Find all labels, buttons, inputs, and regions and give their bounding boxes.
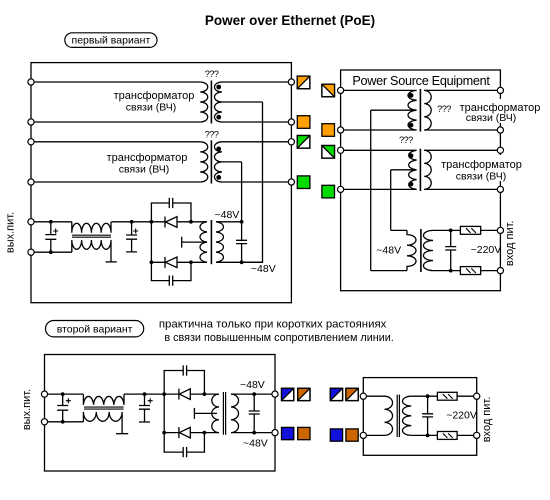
svg-text:???: ??? xyxy=(437,104,451,114)
choke L1 top winding xyxy=(72,222,111,233)
PSE T2 wire right bottom xyxy=(424,188,497,190)
PSE T2 wire left bottom xyxy=(344,188,417,190)
v2 wire bottom rail left xyxy=(48,421,84,423)
capacitor C3 output xyxy=(236,222,247,262)
bridge cap branch top xyxy=(151,203,191,222)
transformer T4 core xyxy=(420,229,422,272)
v2 transformer T6 secondary winding xyxy=(402,396,411,435)
v2 bridge cap top plates xyxy=(183,365,186,375)
v2 PSE wire left bottom xyxy=(366,434,384,436)
v2 bridge left vertical xyxy=(163,394,165,433)
svg-text:трансформатор: трансформатор xyxy=(441,159,522,171)
wire T2 secondary bottom xyxy=(222,181,288,183)
svg-text:???: ??? xyxy=(205,69,219,79)
T2 polarity dots xyxy=(216,147,221,152)
PSE outer box xyxy=(341,70,501,291)
PSE T1 right winding xyxy=(424,90,431,130)
PSE T1 wire left bottom xyxy=(344,129,417,131)
white bg for PSE T2 label xyxy=(440,155,524,181)
svg-text:~220V: ~220V xyxy=(471,244,502,256)
square blue solid B xyxy=(330,429,342,441)
terminal circles left edge of PD box xyxy=(28,79,34,85)
v2 transformer T5 primary winding xyxy=(212,394,219,432)
square pair4 left solid green xyxy=(297,176,310,189)
svg-text:~48V: ~48V xyxy=(243,438,268,450)
wire 48V bottom xyxy=(216,261,263,263)
v2 capacitor C1 electrolytic xyxy=(57,394,68,422)
v2 bridge cap branch bottom xyxy=(164,433,204,453)
square pair1 left diagonal orange xyxy=(297,76,310,89)
PSE T2 polarity dots xyxy=(409,153,414,158)
svg-text:связи (ВЧ): связи (ВЧ) xyxy=(466,112,517,124)
v2 diode D1 xyxy=(179,389,190,400)
v2 capacitor C2 electrolytic with bar xyxy=(139,394,150,422)
cap C1 plus sign xyxy=(53,229,58,234)
variant2 PD box xyxy=(45,355,276,472)
v2 wire 220V bottom xyxy=(411,434,473,436)
fuse F2 xyxy=(460,267,480,275)
svg-text:???: ??? xyxy=(399,135,413,145)
svg-text:вход пит.: вход пит. xyxy=(481,397,493,443)
square pair2 right solid orange xyxy=(322,124,335,137)
label: первый вариант xyxy=(65,33,157,48)
wire bridge bottom rail xyxy=(151,261,207,263)
wire 48V winding bottom xyxy=(371,270,407,272)
v2 choke core xyxy=(84,407,124,409)
v2 PSE terminal circles left edge xyxy=(360,393,366,399)
v2 junction dots xyxy=(61,392,256,434)
choke ground bar xyxy=(106,261,117,263)
transformer T3 center tap with bar xyxy=(182,237,205,248)
wire vertical from T2 tap down to 48V node xyxy=(241,162,243,222)
v2 terminal circles right edge xyxy=(272,391,278,397)
PSE T2 wire left top xyxy=(344,149,417,151)
PSE T1 wire right top xyxy=(424,89,497,91)
svg-text:Power Source Equipment: Power Source Equipment xyxy=(352,74,490,88)
svg-text:трансформатор: трансформатор xyxy=(114,90,195,102)
v2 wire top rail to transformer xyxy=(190,393,219,395)
PSE T2 wire right top xyxy=(424,149,497,151)
PSE T2 center tap xyxy=(391,169,417,171)
v2 capacitor C5 xyxy=(422,396,433,435)
v2 transformer T5 core xyxy=(223,392,225,435)
square orange diagonal B xyxy=(346,388,358,400)
v2 diode D2 xyxy=(179,427,190,438)
white bg for PSE T1 label xyxy=(456,99,540,123)
PSE T1 wire left top xyxy=(344,89,417,91)
wire T1 secondary top xyxy=(222,81,288,83)
v2 transformer T6 core xyxy=(397,395,399,437)
svg-text:Power over Ethernet (PoE): Power over Ethernet (PoE) xyxy=(205,13,375,28)
bridge cap branch bottom xyxy=(151,262,191,280)
v2 wire 48V bottom xyxy=(231,432,272,434)
wire bottom rail left xyxy=(34,251,72,253)
v2 bridge cap bottom plates xyxy=(183,447,186,457)
transformer T2 box xyxy=(31,142,200,182)
v2 fuse F2 xyxy=(437,432,457,440)
wire top rail middle xyxy=(111,221,165,223)
v2 fuse F1 xyxy=(437,392,457,400)
diode D1 xyxy=(165,217,177,228)
v2 transformer T5 secondary winding xyxy=(231,394,239,432)
T1 polarity dots xyxy=(216,85,221,90)
v2 cable squares group1 (near PD) xyxy=(282,388,311,439)
PSE T1 center tap xyxy=(371,109,417,111)
wire 48V winding top xyxy=(391,229,407,231)
transformer T3 core xyxy=(210,220,212,264)
v2 PSE box xyxy=(363,378,476,456)
square pair2 left solid orange xyxy=(297,116,310,129)
svg-text:вых.пит.: вых.пит. xyxy=(4,212,16,253)
v2 choke ground bar xyxy=(116,433,128,435)
svg-text:связи (ВЧ): связи (ВЧ) xyxy=(126,102,177,114)
label: второй вариант xyxy=(46,321,144,337)
v2 transformer T6 primary winding xyxy=(385,396,393,435)
svg-text:в связи повышенным сопротивлен: в связи повышенным сопротивлением линии. xyxy=(164,332,393,344)
square pair3 right diagonal green xyxy=(322,146,335,159)
square blue diagonal B xyxy=(330,388,342,400)
svg-text:связи (ВЧ): связи (ВЧ) xyxy=(456,170,507,182)
svg-text:~48V: ~48V xyxy=(251,263,276,275)
transformer T2 primary winding xyxy=(200,142,208,182)
wire T2 center tap xyxy=(222,161,242,163)
choke L1 core xyxy=(72,235,111,237)
wire top rail to transformer xyxy=(177,221,207,223)
wire T1 secondary bottom xyxy=(222,121,288,123)
svg-text:~48V: ~48V xyxy=(376,245,401,257)
PSE T2 left winding xyxy=(409,150,417,189)
transformer T3 primary winding xyxy=(200,222,207,262)
wire 220V top xyxy=(433,229,497,231)
PSE T1 left winding xyxy=(408,90,417,130)
bridge cap bottom plates xyxy=(169,276,172,286)
PSE T1 core xyxy=(419,89,421,132)
wire 220V bottom xyxy=(433,270,497,272)
square pair3 left diagonal green xyxy=(297,136,310,149)
transformer T2 secondary winding xyxy=(214,142,222,182)
RJ45 pair squares left column xyxy=(297,76,310,188)
capacitor C1 electrolytic xyxy=(45,222,56,252)
bridge cap top plates xyxy=(169,198,172,208)
wire tap1 vertical down xyxy=(370,110,372,270)
v2 wire top rail middle xyxy=(124,393,179,395)
wire T2 secondary top xyxy=(222,141,288,143)
v2 choke top winding xyxy=(83,394,124,405)
svg-text:практична только при коротких: практична только при коротких растояниях xyxy=(159,318,387,330)
RJ45 pair squares right column xyxy=(322,84,335,198)
v2 wire 48V top xyxy=(231,393,272,395)
v2 cap C1 plus sign xyxy=(66,398,71,403)
junction dots variant1 xyxy=(49,220,244,264)
v2 PSE terminal circles right edge xyxy=(474,393,480,399)
square orange solid A xyxy=(298,427,310,439)
v2 capacitor C3 output xyxy=(249,394,260,433)
wire vertical from T1 tap down to 48V node xyxy=(242,102,263,262)
wire tap2 vertical down xyxy=(390,170,392,231)
svg-text:~48V: ~48V xyxy=(240,379,265,391)
square orange solid B xyxy=(346,429,358,441)
choke L1 bottom winding xyxy=(72,240,111,262)
wire top rail left xyxy=(34,221,72,223)
v2 choke bottom winding xyxy=(83,412,122,434)
v2 PSE junction dots xyxy=(426,394,430,398)
fuse F1 xyxy=(460,226,480,234)
PSE T1 polarity dots xyxy=(409,93,414,98)
diode D2 xyxy=(165,257,177,268)
v2 cap C2 plus sign xyxy=(148,398,153,403)
transformer T1 secondary winding xyxy=(215,82,222,122)
square blue diagonal A xyxy=(282,388,294,400)
wire T1 center tap xyxy=(222,101,263,103)
v2 wire bridge bottom rail xyxy=(164,432,219,434)
square pair4 right solid green xyxy=(322,185,335,198)
v2 terminal circles left edge xyxy=(41,391,47,397)
svg-text:вход пит.: вход пит. xyxy=(504,221,516,267)
PD outer box xyxy=(31,63,291,303)
v2 wire 220V top xyxy=(411,395,473,397)
transformer T4 left winding xyxy=(407,230,416,270)
svg-text:первый вариант: первый вариант xyxy=(72,35,151,47)
v2 T5 center tap with bar xyxy=(194,408,217,419)
transformer T2 core xyxy=(210,140,212,183)
cap C2 plus sign xyxy=(133,229,138,234)
PSE T2 core xyxy=(419,149,421,191)
capacitor C4 xyxy=(445,230,456,270)
svg-text:???: ??? xyxy=(205,130,219,140)
transformer T1 box xyxy=(31,82,200,122)
PSE T2 right winding xyxy=(424,150,431,189)
transformer T1 primary winding xyxy=(200,82,208,122)
junction dots 220V xyxy=(449,229,453,233)
svg-text:~220V: ~220V xyxy=(446,409,477,421)
terminal circles PSE right edge xyxy=(497,87,503,93)
v2 PSE wire left top xyxy=(366,395,384,397)
transformer T4 right winding xyxy=(423,230,433,270)
terminal circles PSE left edge xyxy=(338,87,344,93)
svg-text:второй вариант: второй вариант xyxy=(57,323,133,335)
square blue solid A xyxy=(282,427,294,439)
transformer T3 secondary winding xyxy=(216,222,223,262)
capacitor C2 electrolytic with bar xyxy=(126,222,137,252)
transformer T1 core xyxy=(210,81,212,124)
terminal circles right edge of PD box xyxy=(288,79,294,85)
svg-text:связи (ВЧ): связи (ВЧ) xyxy=(119,164,170,176)
svg-text:~48V: ~48V xyxy=(215,209,240,221)
square pair1 right diagonal orange xyxy=(322,84,335,97)
PSE T1 wire right bottom xyxy=(424,129,497,131)
wire 48V top xyxy=(216,221,242,223)
v2 bridge cap branch top xyxy=(164,371,204,395)
v2 wire top rail left xyxy=(48,393,84,395)
v2 cable squares group2 (near PSE) xyxy=(330,388,358,441)
square orange diagonal A xyxy=(298,388,310,400)
bridge left vertical xyxy=(150,222,152,262)
svg-text:вых.пит.: вых.пит. xyxy=(21,389,33,430)
svg-text:трансформатор: трансформатор xyxy=(107,152,188,164)
